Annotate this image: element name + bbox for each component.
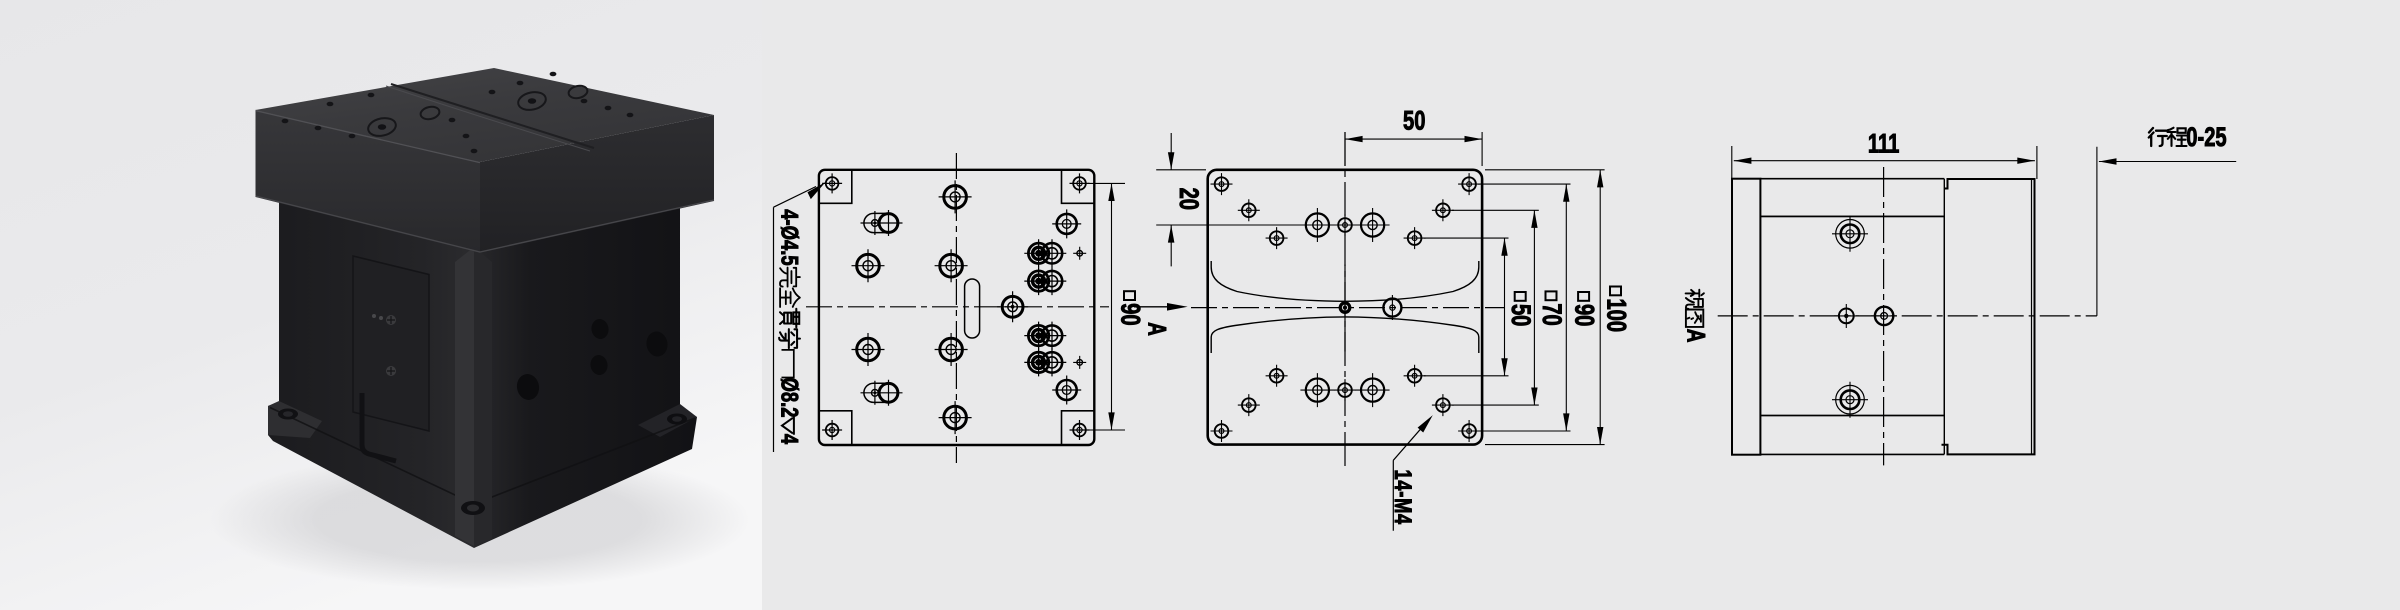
panel screws: [386, 315, 396, 325]
corner square BR: [1062, 411, 1095, 445]
dim 111 extension lines: [1732, 146, 2037, 213]
lid right face: [480, 115, 714, 253]
horizontal centerline: [1191, 307, 1504, 309]
svg-text:A: A: [1682, 329, 1710, 343]
floor shadow: [210, 450, 750, 590]
dim □70: [1533, 210, 1535, 405]
dim □90 line: [1111, 183, 1113, 430]
carriage holes: [1832, 216, 1868, 252]
dim □100: [1599, 170, 1601, 445]
dim 111 line: [1734, 160, 2035, 162]
label 50: [1403, 106, 1425, 135]
leader 14-M4: [1393, 422, 1427, 531]
dim □90 extension lines: [1088, 183, 1125, 430]
right block: [1942, 179, 2035, 454]
svg-text:4-Ø4.5: 4-Ø4.5: [776, 209, 804, 265]
right cluster pairs: [1024, 239, 1066, 267]
top seam curve: [391, 84, 594, 148]
horizontal centerline: [1718, 315, 2097, 317]
right-side extension lines: [1478, 184, 1571, 431]
left photo background: [0, 0, 762, 610]
dim □90 arrows: [1108, 183, 1114, 201]
left plate: [1732, 179, 1760, 455]
body right face: [474, 201, 697, 548]
washer holes: [852, 249, 885, 282]
base left flange top: [268, 401, 322, 438]
label □90 (rotated): [1116, 291, 1145, 325]
vertical centerline: [1344, 132, 1346, 469]
svg-text:0-25: 0-25: [2186, 123, 2226, 152]
dim 20 left: [1156, 170, 1319, 225]
view direction arrow A: [1134, 306, 1171, 308]
right face holes: [515, 318, 670, 402]
svg-text:70: 70: [1537, 303, 1566, 325]
front-left service panel: [353, 256, 429, 431]
base right flange top: [638, 404, 697, 437]
row3 holes: [1266, 227, 1288, 249]
dim 50 line: [1345, 138, 1482, 140]
bottom rail: [1760, 416, 1944, 455]
row2 holes: [1238, 199, 1260, 221]
washer with dot: [997, 291, 1028, 322]
svg-text:100: 100: [1602, 298, 1631, 332]
horizontal centerline: [806, 306, 1109, 308]
vertical centerline: [1883, 167, 1885, 465]
corner square TL: [819, 170, 852, 204]
lid top face: [256, 68, 715, 162]
svg-text:Ø8.2: Ø8.2: [776, 377, 804, 417]
right block edge thick: [2031, 180, 2033, 454]
dim □50: [1504, 238, 1506, 376]
svg-text:50: 50: [1507, 304, 1536, 326]
corner holes: [1211, 173, 1233, 195]
big pair holes lower: [1300, 373, 1334, 407]
lid left face: [256, 110, 481, 253]
big pair holes upper: [1300, 208, 1334, 242]
dim □90: [1565, 184, 1567, 431]
corner square BL: [819, 411, 852, 445]
svg-text:90: 90: [1570, 304, 1599, 326]
top counterbores: [367, 84, 589, 138]
label A (rotated): [1143, 322, 1171, 336]
svg-text:14-M4: 14-M4: [1389, 470, 1416, 525]
label 视图A (rotated): [1682, 290, 1710, 343]
central vertical slot: [965, 279, 980, 338]
L-groove on left face: [362, 393, 396, 461]
note text (rotated): 4-Ø4.5完全贯穿 ⌴Ø8.2↧4: [776, 209, 804, 444]
lower block seam: [1211, 317, 1479, 353]
travel annotation lines: [2096, 147, 2098, 316]
lid top-left edge highlight: [256, 111, 481, 163]
lid bottom edge highlights: [256, 196, 715, 252]
top / bottom center washers: [939, 180, 972, 213]
vertical centerline: [955, 153, 957, 463]
corner square TR: [1062, 170, 1095, 204]
label 行程0-25: [2149, 128, 2167, 146]
front corner pillar highlight: [455, 247, 474, 546]
svg-text:20: 20: [1174, 188, 1203, 210]
center ring hole: [1383, 295, 1401, 320]
svg-text:50: 50: [1403, 106, 1425, 135]
plate outline: [1208, 170, 1482, 445]
right washers: [1052, 209, 1081, 238]
top small screw holes: [282, 72, 634, 154]
plate outline: [819, 170, 1094, 445]
svg-text:111: 111: [1868, 129, 1899, 158]
upper block seam: [1211, 261, 1479, 301]
base plate top edge lines: [270, 408, 695, 505]
center dot: [1339, 301, 1352, 314]
base flange counterbores: [278, 409, 298, 420]
body left face: [268, 200, 474, 548]
top rail: [1760, 179, 1944, 217]
label 111: [1868, 129, 1899, 158]
inner right edge: [1943, 179, 1945, 455]
svg-text:A: A: [1143, 322, 1171, 336]
dim 50 extension lines: [1345, 132, 1482, 166]
carriage face: [1760, 216, 1944, 415]
tiny ticks: [1073, 247, 1086, 260]
leader: 4-Ø4.5 counterbore note: [774, 187, 817, 208]
svg-text:4: 4: [776, 434, 804, 444]
corner holes: [822, 173, 842, 193]
slot motifs: [861, 210, 903, 236]
